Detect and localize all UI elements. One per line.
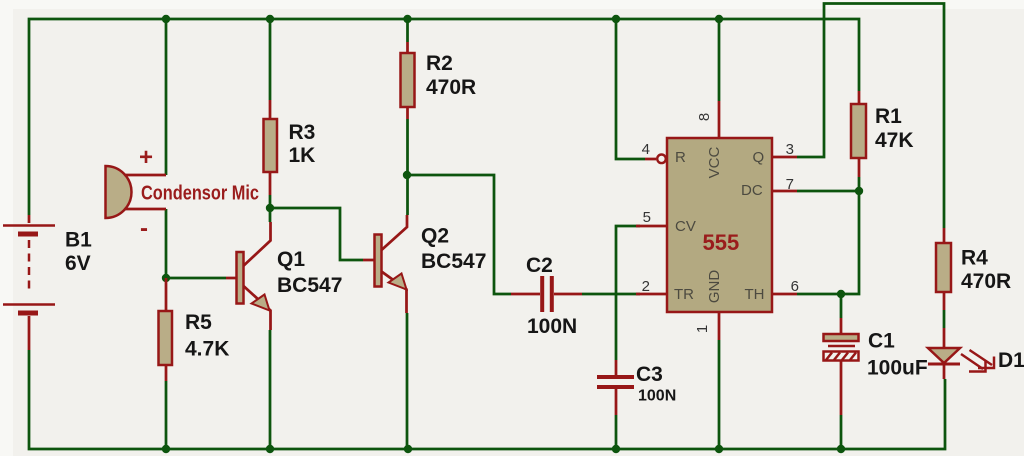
svg-text:100N: 100N bbox=[527, 315, 577, 338]
svg-text:R3: R3 bbox=[289, 121, 316, 144]
svg-text:470R: 470R bbox=[426, 76, 476, 99]
svg-text:C1: C1 bbox=[868, 330, 895, 353]
svg-text:470R: 470R bbox=[961, 270, 1011, 293]
svg-text:R5: R5 bbox=[185, 311, 212, 334]
svg-text:7: 7 bbox=[786, 176, 794, 193]
svg-text:BC547: BC547 bbox=[421, 250, 486, 273]
svg-text:CV: CV bbox=[675, 218, 696, 235]
svg-text:BC547: BC547 bbox=[277, 274, 342, 297]
svg-text:555: 555 bbox=[703, 230, 740, 255]
svg-text:2: 2 bbox=[642, 278, 650, 295]
svg-text:6V: 6V bbox=[65, 252, 91, 275]
svg-text:5: 5 bbox=[643, 209, 651, 226]
svg-text:Q1: Q1 bbox=[277, 248, 305, 271]
svg-text:Q2: Q2 bbox=[421, 225, 449, 248]
svg-text:B1: B1 bbox=[65, 229, 92, 252]
svg-text:C3: C3 bbox=[636, 363, 663, 386]
svg-text:Q: Q bbox=[753, 149, 765, 166]
svg-text:6: 6 bbox=[791, 278, 799, 295]
svg-text:R: R bbox=[675, 149, 686, 166]
svg-text:100uF: 100uF bbox=[867, 357, 928, 380]
svg-text:TH: TH bbox=[745, 286, 765, 303]
svg-text:GND: GND bbox=[706, 270, 723, 304]
svg-text:D1: D1 bbox=[998, 349, 1024, 372]
svg-text:Condensor Mic: Condensor Mic bbox=[141, 183, 259, 205]
svg-text:8: 8 bbox=[696, 113, 713, 121]
svg-text:4: 4 bbox=[642, 141, 650, 158]
svg-text:DC: DC bbox=[741, 182, 763, 199]
svg-text:R2: R2 bbox=[426, 52, 453, 75]
svg-text:VCC: VCC bbox=[706, 146, 723, 178]
svg-text:1K: 1K bbox=[289, 144, 316, 167]
svg-text:1: 1 bbox=[694, 325, 711, 333]
svg-text:TR: TR bbox=[674, 286, 694, 303]
svg-text:4.7K: 4.7K bbox=[185, 338, 229, 361]
svg-text:3: 3 bbox=[786, 141, 794, 158]
svg-text:100N: 100N bbox=[638, 388, 676, 405]
svg-text:-: - bbox=[140, 215, 148, 242]
svg-text:47K: 47K bbox=[875, 129, 914, 152]
svg-text:R4: R4 bbox=[961, 247, 988, 270]
svg-text:+: + bbox=[139, 144, 153, 171]
svg-text:C2: C2 bbox=[526, 254, 553, 277]
svg-text:R1: R1 bbox=[875, 105, 902, 128]
